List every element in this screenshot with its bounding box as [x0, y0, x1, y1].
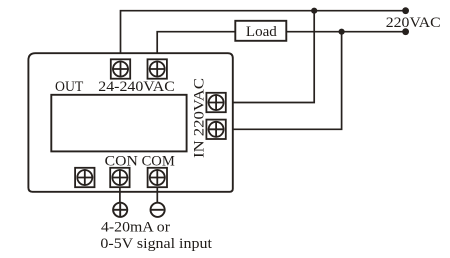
svg-text:4-20mA or: 4-20mA or — [101, 220, 170, 236]
svg-text:OUT: OUT — [55, 79, 83, 95]
load box — [235, 21, 286, 41]
plus terminal — [113, 203, 127, 217]
wire OUT2 to Load — [157, 32, 235, 54]
wire Load to N terminal — [286, 31, 405, 33]
terminal IN1 — [206, 93, 225, 112]
svg-text:IN 220VAC: IN 220VAC — [192, 78, 208, 158]
terminal CON — [110, 168, 129, 187]
svg-text:CON: CON — [105, 153, 138, 169]
supply terminal dot L — [402, 7, 409, 14]
terminal IN2 — [206, 120, 225, 139]
terminal AUX (bottom left) — [75, 168, 94, 187]
svg-text:0-5V signal input: 0-5V signal input — [100, 236, 212, 252]
svg-text:220VAC: 220VAC — [386, 15, 441, 31]
terminal OUT2 — [148, 59, 167, 78]
device outline — [28, 53, 232, 192]
svg-text:Load: Load — [246, 24, 278, 40]
wire COM to minus terminal — [156, 187, 158, 202]
wire L: top supply wire from OUT1 up and right to 220VAC — [121, 11, 406, 54]
wire CON to plus terminal — [119, 187, 121, 202]
svg-text:COM: COM — [142, 153, 175, 169]
supply terminal dot N — [402, 28, 409, 35]
display window — [51, 95, 186, 152]
terminal OUT1 — [111, 59, 130, 78]
terminal COM — [148, 168, 167, 187]
minus terminal — [151, 203, 165, 217]
junction dot on wire N — [339, 29, 345, 35]
wire junction N down to IN2 — [226, 32, 341, 130]
wire junction L down to IN1 — [226, 11, 314, 103]
junction dot on wire L — [311, 8, 317, 14]
svg-text:24-240VAC: 24-240VAC — [98, 79, 175, 95]
